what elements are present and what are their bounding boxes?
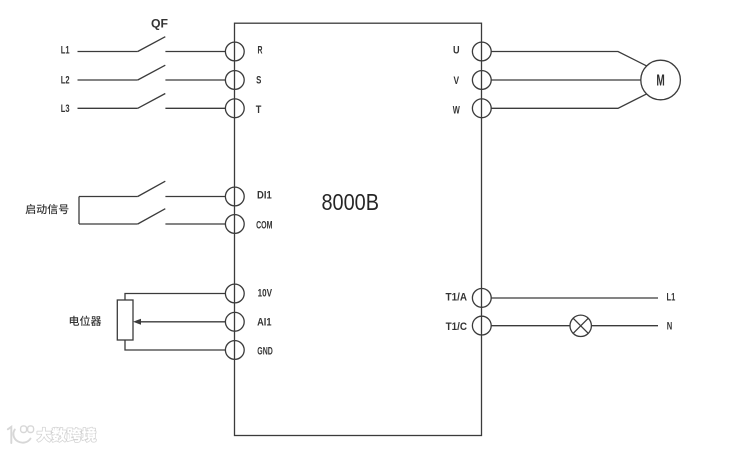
wire QF pole 2 to terminal S (165, 79, 225, 81)
indicator lamp (570, 315, 591, 336)
wire L3 to breaker QF (78, 107, 138, 109)
terminal GND (225, 341, 272, 360)
watermark text 大数跨境 (37, 428, 96, 442)
svg-text:L2: L2 (61, 74, 70, 86)
wire 10V to potentiometer top (125, 294, 225, 301)
wire W to motor (491, 94, 646, 108)
wire T1/A to L1 (491, 297, 658, 299)
terminal V (454, 71, 492, 90)
svg-text:L1: L1 (61, 44, 70, 56)
start switch blade 2 (138, 209, 166, 224)
wire start switch to terminal DI1 (165, 196, 225, 198)
svg-text:T1/A: T1/A (446, 291, 468, 303)
svg-text:T1/C: T1/C (446, 321, 467, 333)
svg-text:10V: 10V (258, 287, 273, 299)
breaker QF pole 1 blade (138, 37, 166, 52)
terminal U (453, 42, 491, 61)
terminal AI1 (225, 312, 271, 331)
terminal T1/A (446, 289, 492, 308)
wire to start switch pole 2 (79, 223, 138, 225)
svg-text:U: U (453, 45, 460, 57)
start switch blade 1 (138, 181, 166, 196)
terminal COM (225, 215, 272, 234)
wire to start switch pole 1 (79, 196, 138, 198)
svg-text:V: V (454, 75, 460, 87)
svg-text:8000B: 8000B (322, 189, 380, 215)
svg-text:W: W (453, 104, 461, 116)
motor M (641, 60, 681, 100)
wire L1 to breaker QF (78, 51, 138, 53)
svg-text:QF: QF (151, 16, 168, 30)
wire V to motor (491, 79, 641, 81)
label 电位器 (potentiometer) (70, 316, 101, 326)
wire T1/C to lamp (491, 325, 570, 327)
wire start switch to terminal COM (165, 223, 225, 225)
inverter main box (235, 23, 482, 435)
breaker QF pole 2 blade (138, 65, 166, 80)
wire lamp to N (591, 325, 658, 327)
potentiometer wiper arrow to AI1 (139, 321, 225, 323)
svg-text:L1: L1 (667, 292, 676, 304)
terminal T1/C (446, 316, 492, 335)
terminal W (453, 99, 491, 118)
label 启动信号 (start signal) (26, 204, 69, 214)
terminal T (225, 99, 261, 118)
svg-text:DI1: DI1 (257, 189, 272, 201)
terminal S (225, 71, 261, 90)
svg-text:GND: GND (257, 346, 273, 358)
watermark logo icon (8, 427, 31, 443)
svg-text:T: T (256, 104, 262, 116)
svg-text:L3: L3 (61, 103, 70, 115)
svg-text:COM: COM (256, 219, 272, 231)
terminal 10V (225, 284, 272, 303)
wire QF pole 3 to terminal T (165, 107, 225, 109)
svg-text:M: M (656, 72, 664, 89)
terminal DI1 (225, 187, 271, 206)
wire QF pole 1 to terminal R (165, 51, 225, 53)
wire L2 to breaker QF (78, 79, 138, 81)
svg-text:N: N (667, 321, 673, 333)
svg-text:AI1: AI1 (257, 316, 271, 328)
wire GND to potentiometer bottom (125, 340, 225, 350)
breaker QF pole 3 blade (138, 94, 166, 109)
svg-text:R: R (258, 45, 263, 57)
wire start-signal left bracket (78, 197, 80, 225)
wire U to motor (491, 52, 646, 66)
svg-text:S: S (256, 74, 261, 86)
potentiometer body (117, 300, 133, 340)
terminal R (225, 42, 262, 61)
